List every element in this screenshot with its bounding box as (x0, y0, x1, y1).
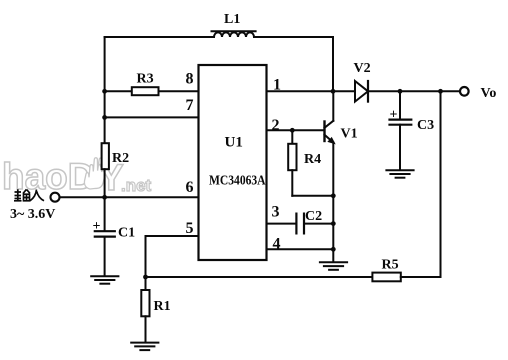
wire input row to pin6 (59, 196, 199, 198)
svg-text:haoD: haoD (2, 156, 95, 197)
svg-text:4: 4 (273, 236, 281, 253)
wire pin4 row (267, 248, 334, 250)
wire C1 to ground (104, 237, 106, 276)
wire C2 to vertical (304, 223, 333, 225)
svg-text:5: 5 (186, 220, 194, 237)
wire top rail right segment (254, 36, 333, 38)
net label 输入 (input) (14, 189, 44, 201)
wire left vertical lower (R2 to input row) (104, 169, 106, 197)
wire bottom rail left (R1 node to R5) (146, 276, 373, 278)
svg-text:C3: C3 (417, 118, 434, 133)
svg-text:7: 7 (186, 97, 194, 114)
wire pin1 row (267, 90, 356, 92)
ground (R1) (131, 343, 158, 351)
wire bottom rail right (R5 to right vertical) (401, 276, 441, 278)
svg-text:3~ 3.6V: 3~ 3.6V (10, 207, 55, 222)
node: pin4 junction (331, 247, 336, 252)
svg-text:1: 1 (273, 76, 281, 93)
watermark haoDIY.net (2, 156, 152, 198)
wire input node down to C1 (104, 197, 106, 231)
output terminal (460, 87, 469, 96)
svg-text:R4: R4 (304, 152, 321, 167)
wire pin2 row (base) (267, 129, 325, 131)
svg-text:U1: U1 (225, 135, 243, 151)
svg-text:C1: C1 (118, 226, 135, 241)
capacitor C2 (296, 214, 304, 234)
transistor V1 (325, 91, 335, 196)
node: C2 junction (331, 221, 336, 226)
svg-text:R3: R3 (137, 72, 154, 87)
node: pin7 junction (102, 115, 107, 120)
wire C3 to ground (399, 125, 401, 170)
svg-text:2: 2 (272, 117, 280, 134)
ground (emitter node) (320, 262, 347, 270)
resistor R4 (288, 130, 333, 196)
wire L1 right drop to pin1 node (332, 37, 334, 91)
svg-text:6: 6 (186, 179, 194, 196)
svg-text:L1: L1 (224, 12, 240, 27)
svg-text:+: + (93, 219, 101, 234)
svg-text:.net: .net (121, 176, 152, 195)
wire pin8 row left (105, 90, 132, 92)
diode V2 (355, 81, 368, 102)
wire output node down to C3 (399, 91, 401, 119)
svg-text:V1: V1 (341, 127, 358, 142)
resistor R5 (372, 273, 400, 282)
svg-text:V2: V2 (354, 61, 371, 76)
svg-text:R2: R2 (112, 151, 129, 166)
svg-text:R5: R5 (382, 258, 399, 273)
ground (C3) (386, 170, 413, 178)
inductor L1 (212, 31, 256, 37)
node: base/R4 junction (290, 128, 295, 133)
node: feedback junction (438, 89, 443, 94)
wire R1 bottom lead (145, 316, 147, 342)
svg-text:Vo: Vo (481, 86, 497, 101)
node: C3 junction (398, 89, 403, 94)
wire pin7 row (105, 116, 199, 118)
resistor R3 (132, 87, 159, 95)
op-amp U1 box (199, 65, 267, 260)
node: pin1/L1/collector junction (331, 89, 336, 94)
svg-text:MC34063A: MC34063A (209, 174, 266, 189)
wire pin8 row right (159, 90, 199, 92)
wire right vertical (feedback to output row) (440, 91, 442, 277)
resistor R1 (141, 277, 149, 316)
node: pin8/R3 junction (102, 89, 107, 94)
resistor R2 (102, 143, 109, 169)
node: input junction (102, 195, 107, 200)
svg-text:8: 8 (186, 71, 194, 88)
wire top rail left segment (105, 36, 214, 38)
wire pin3 row (267, 223, 296, 225)
ground (C1) (91, 276, 118, 284)
capacitor C1 (95, 231, 115, 236)
input terminal (51, 193, 60, 202)
svg-text:3: 3 (272, 204, 280, 221)
wire emitter node down (to C2/pin4/ground) (332, 196, 334, 262)
capacitor C3 (390, 120, 412, 125)
wire output row (368, 90, 460, 92)
svg-text:C2: C2 (305, 209, 322, 224)
wire pin5 row (146, 236, 199, 277)
svg-text:R1: R1 (154, 299, 171, 314)
wire left vertical upper (top rail to R2) (104, 37, 106, 143)
node: emitter/R4 junction (331, 193, 336, 198)
svg-text:+: + (390, 108, 398, 123)
node: R1 junction (143, 275, 148, 280)
